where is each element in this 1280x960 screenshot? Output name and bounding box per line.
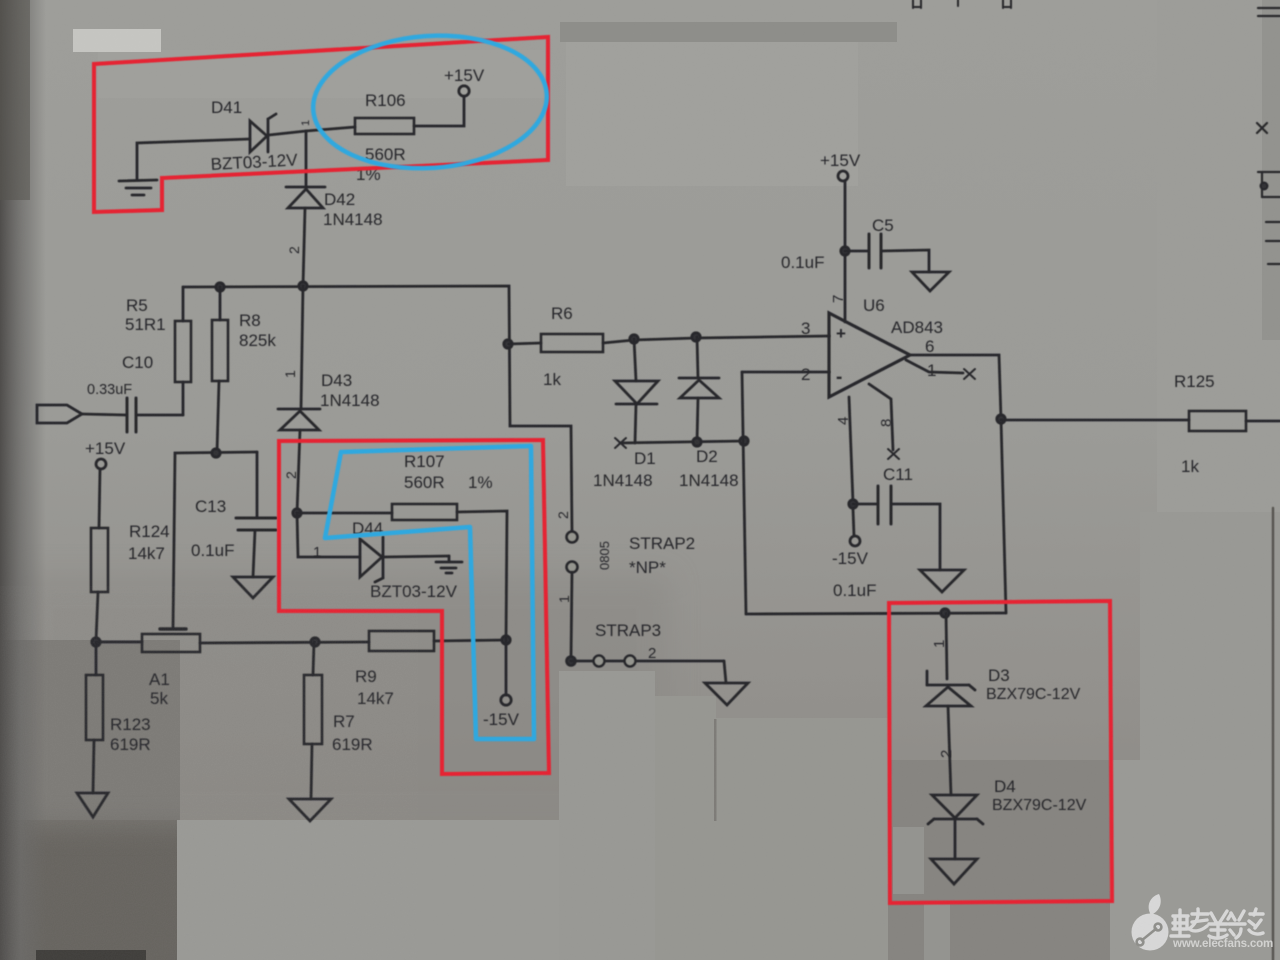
ground (D4) <box>931 859 977 884</box>
junction dot D2 bottom <box>693 438 701 446</box>
bottom-left dark zone <box>0 640 180 960</box>
junction dot R8 bottom <box>212 449 220 457</box>
ground (C11) <box>920 570 964 592</box>
wire D44 cathode to ground <box>384 556 449 557</box>
resistor R5 leads <box>182 287 185 321</box>
diode D43 1N4148 <box>278 408 320 411</box>
ground (D44) <box>436 556 462 573</box>
op-amp output wire <box>910 355 1001 419</box>
A1 wiper wire up to C13 net <box>173 452 257 629</box>
capacitor C10 <box>127 398 136 432</box>
node D41/D42/R106 <box>305 131 308 187</box>
red annotation box (D41/R106 area) <box>94 37 548 212</box>
node A <box>92 638 100 646</box>
capacitor C5 <box>845 250 869 253</box>
bright small rect top-left <box>73 29 161 52</box>
top edge fragments <box>913 0 1011 8</box>
junction dot D1 <box>630 335 638 343</box>
pin 8 stub <box>869 384 893 450</box>
mid-lower medium zone (under A1/R7 row) <box>20 575 670 825</box>
very dark sliver at bottom edge <box>36 950 146 960</box>
junction dot -15V node <box>849 500 857 508</box>
pin 4 wire <box>849 397 853 503</box>
junction dot strap3 <box>567 657 576 666</box>
top light bands <box>560 22 897 42</box>
small light patch at left edge near input tag <box>0 406 31 437</box>
ground (STRAP3) <box>705 683 748 705</box>
red annotation box (D3/D4 area) <box>889 601 1112 903</box>
wire to op-amp -input <box>742 371 829 374</box>
right light columns <box>1157 0 1280 512</box>
faint boundary sliver between patches <box>714 719 717 821</box>
wire D42 net down to D43 <box>301 286 303 409</box>
ground (C5) <box>912 272 949 291</box>
diode D4 (zener BZX79C-12V) <box>932 795 977 818</box>
red annotation box (R107/D44 area) <box>279 440 549 774</box>
diode D44 (zener BZT03-12V) <box>297 513 360 557</box>
junction dot D3 <box>941 609 949 617</box>
capacitor C13 <box>236 518 276 530</box>
diode D1 1N4148 <box>634 339 636 381</box>
elecfans logo <box>1132 894 1169 951</box>
resistor R9 <box>369 631 434 651</box>
blue annotation loop (R107 to -15V) <box>325 446 534 739</box>
junction dot R6 branch <box>504 340 512 348</box>
resistor R107 <box>297 512 392 515</box>
wire D42 anode down to net <box>303 208 305 286</box>
ground (R123) <box>77 793 108 817</box>
junction dot C5 <box>841 247 849 255</box>
ground (R7) <box>289 799 331 821</box>
diode D3 (zener BZX79C-12V) <box>946 613 947 679</box>
wire A1 to R9 <box>200 642 369 643</box>
wire D41 cathode to node <box>269 131 306 135</box>
resistor R6 <box>509 343 541 344</box>
wire to op-amp +input <box>634 336 829 340</box>
junction dot D2 <box>692 333 700 341</box>
right edge vertical fragment <box>1272 508 1274 960</box>
diode D41 (zener BZT03-12V) <box>250 121 267 152</box>
wire D41 anode to ground <box>137 139 250 179</box>
ground (left of D41) <box>119 180 157 195</box>
left dark edge strip <box>0 0 46 960</box>
input tag <box>37 405 82 423</box>
wire R106 to +15V <box>414 97 464 126</box>
no-connect x mark <box>615 438 626 448</box>
wire D3 to D4 <box>948 706 951 795</box>
strap2 pads <box>567 532 578 543</box>
resistor R8 <box>212 320 228 381</box>
node D44/R107 <box>293 509 301 517</box>
pin 1 stub with x <box>906 360 963 373</box>
wire node A to A1 <box>96 641 142 644</box>
resistor R8 leads <box>219 287 222 320</box>
bottom feedback wire <box>746 613 1006 614</box>
+15V terminal (top) <box>459 86 469 96</box>
+15V terminal (op-amp) <box>838 171 848 181</box>
pin 7 wire from +15V <box>844 181 847 322</box>
junction dot feedback <box>740 437 748 445</box>
strap3 wire and pads <box>571 660 724 663</box>
resistor R125 <box>1189 411 1246 431</box>
feedback vertical wire <box>742 372 746 614</box>
resistor R106 <box>355 118 414 134</box>
junction dot -15V node <box>502 636 510 644</box>
resistor R124 <box>91 528 108 592</box>
diode D2 1N4148 <box>697 337 698 378</box>
diode D42 1N4148 <box>286 186 325 189</box>
-15V terminal (left) <box>501 695 511 705</box>
resistor R123 <box>95 642 98 675</box>
watermark chinese glyphs <box>1171 909 1263 938</box>
capacitor C11 <box>853 503 878 506</box>
potentiometer A1 <box>142 634 200 652</box>
resistor R5 <box>175 321 191 382</box>
extra grain bottom-left <box>0 620 380 960</box>
darker block under D3/D4 area <box>888 760 1110 960</box>
big flat light rectangles at bottom (scanner exposure patches) <box>559 671 655 960</box>
wire output to R125 <box>1001 419 1189 422</box>
output vertical wire <box>1001 419 1006 613</box>
junction dot R7 <box>311 638 319 646</box>
main node wire (horizontal net) <box>183 286 572 532</box>
ground (C13) <box>233 577 273 598</box>
resistor R106 lead <box>306 127 355 131</box>
+15V terminal (left) <box>96 459 106 469</box>
resistor R7 <box>313 642 314 675</box>
junction dot R8 <box>216 283 224 291</box>
wire strap2 to strap3 <box>571 572 572 658</box>
blue annotation ellipse (R106) <box>309 28 552 176</box>
op-amp U6 AD843 <box>829 313 910 397</box>
D1/D2 bottom wire <box>620 441 744 443</box>
right edge fragments <box>1257 8 1280 264</box>
-15V terminal (op-amp) <box>853 509 854 536</box>
junction dot output <box>997 415 1005 423</box>
junction dot D42 net <box>299 282 307 290</box>
